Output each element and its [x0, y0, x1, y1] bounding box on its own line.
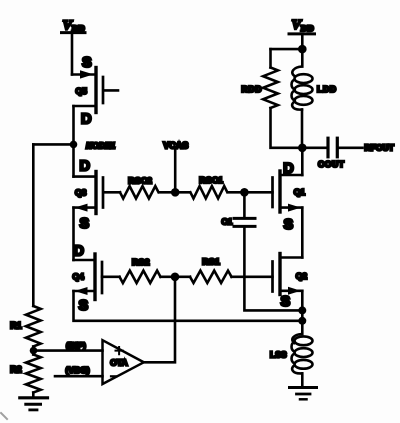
- svg-text:NODE1: NODE1: [86, 141, 116, 151]
- svg-text:RDD: RDD: [242, 84, 263, 94]
- svg-text:RGC2: RGC2: [128, 176, 152, 186]
- op-amp OTA: [103, 340, 144, 384]
- wire junction to OTA + input (INP): [34, 349, 103, 352]
- svg-text:Q4: Q4: [73, 272, 85, 282]
- resistor R1: [26, 306, 41, 347]
- wire R2 to ground: [32, 393, 35, 398]
- inductor LSS: [292, 334, 313, 387]
- transistor Q2: [273, 254, 303, 295]
- node RDD/LDD output junction: [298, 144, 307, 153]
- svg-text:S: S: [79, 298, 89, 314]
- resistor RG2: [120, 271, 161, 283]
- node C1/Q1 gate junction: [240, 188, 249, 197]
- wire VDD1 to Q5 source: [71, 33, 74, 75]
- wire VDD2 down: [301, 34, 304, 49]
- svg-text:S: S: [281, 294, 291, 310]
- transistor Q5: [72, 68, 118, 113]
- wire junction to RDD: [271, 48, 303, 51]
- svg-text:Q1: Q1: [294, 187, 306, 197]
- power symbol VDD (left): [62, 19, 86, 34]
- svg-text:S: S: [284, 217, 294, 233]
- wire RDD to output node: [271, 108, 303, 148]
- svg-text:RGC1: RGC1: [199, 175, 223, 185]
- wire RGC2 to RGC1: [160, 191, 190, 194]
- resistor RG1: [190, 271, 232, 283]
- node RG junction: [171, 273, 180, 282]
- wire VCAS: [174, 151, 177, 193]
- svg-text:RFOUT: RFOUT: [365, 142, 395, 152]
- wire Q1 source to Q2 drain: [301, 208, 304, 258]
- wire Q3 source to Q4 drain: [72, 208, 75, 260]
- svg-text:LSS: LSS: [270, 350, 287, 360]
- svg-text:C1: C1: [222, 217, 233, 227]
- svg-text:LDD: LDD: [317, 84, 337, 94]
- svg-text:COUT: COUT: [318, 159, 345, 169]
- wire VBG to OTA - input: [55, 375, 103, 378]
- wire RG2 to RG1: [161, 275, 191, 278]
- svg-text:Q2: Q2: [296, 271, 308, 281]
- svg-text:D: D: [81, 112, 91, 128]
- svg-text:R2: R2: [10, 365, 22, 375]
- node VDD2 junction: [298, 45, 307, 54]
- svg-text:(VBG): (VBG): [66, 365, 90, 375]
- wire Q4 source down and right to Q2 source node: [74, 291, 303, 321]
- svg-text:OTA: OTA: [110, 357, 127, 367]
- power symbol VDD (right): [289, 18, 315, 34]
- svg-text:D: D: [80, 159, 90, 175]
- svg-text:D: D: [74, 244, 84, 260]
- node Q2 source / C1 junction: [298, 306, 306, 314]
- resistor RGC2: [120, 186, 159, 198]
- capacitor COUT: [302, 138, 362, 157]
- wire Q2 source down to LSS: [301, 291, 304, 334]
- corner artifact mark: [1, 413, 7, 419]
- svg-text:(INP): (INP): [66, 340, 86, 350]
- node NODE1: [70, 141, 78, 149]
- svg-text:RG2: RG2: [132, 257, 150, 267]
- transistor Q4: [74, 254, 120, 300]
- svg-text:VCAS: VCAS: [163, 140, 188, 150]
- svg-text:DD: DD: [301, 23, 315, 33]
- svg-text:S: S: [82, 55, 92, 71]
- resistor RDD: [263, 68, 278, 109]
- resistor R2: [26, 355, 41, 393]
- svg-text:RG1: RG1: [202, 257, 220, 267]
- inductor LDD: [292, 49, 313, 148]
- transistor Q3: [74, 172, 121, 214]
- svg-text:Q5: Q5: [76, 86, 88, 96]
- node VCAS junction: [171, 188, 180, 197]
- ground (under R2): [20, 398, 48, 410]
- wire RG1 to Q2 gate: [232, 275, 273, 278]
- wire RGC1 to Q1 gate: [229, 191, 273, 194]
- svg-text:S: S: [80, 216, 90, 232]
- wire OTA output to RG junction: [144, 277, 175, 363]
- node Q2 source / Q4 wire junction: [298, 317, 306, 325]
- capacitor C1: [234, 192, 302, 310]
- wire Q5 drain to Q3 drain: [72, 106, 75, 177]
- wire output node to Q1 drain: [301, 148, 304, 175]
- wire left rail down to R1: [32, 144, 35, 306]
- transistor Q1: [273, 171, 303, 212]
- wire NODE1 to left rail: [33, 143, 73, 146]
- svg-text:R1: R1: [10, 321, 22, 331]
- ground (under LSS): [290, 388, 317, 400]
- resistor RGC1: [190, 186, 227, 198]
- node R1/R2 junction: [30, 347, 38, 355]
- wire R1 to R2: [32, 347, 35, 355]
- svg-text:Q3: Q3: [75, 188, 87, 198]
